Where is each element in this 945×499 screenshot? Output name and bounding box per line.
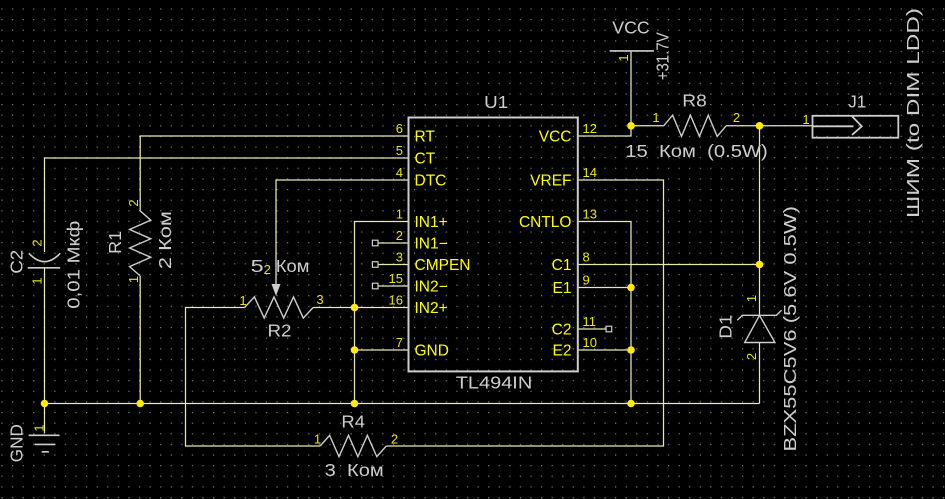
svg-text:5: 5	[396, 143, 403, 158]
svg-text:1: 1	[744, 295, 759, 302]
svg-text:1: 1	[239, 293, 246, 308]
svg-text:C2: C2	[7, 250, 27, 274]
svg-text:E1: E1	[553, 280, 572, 297]
svg-text:CNTLO: CNTLO	[519, 214, 572, 231]
svg-text:3 Ком: 3 Ком	[325, 460, 384, 480]
svg-text:1: 1	[802, 112, 809, 127]
svg-text:VCC: VCC	[612, 18, 650, 38]
svg-text:R1: R1	[105, 231, 125, 254]
svg-text:CT: CT	[415, 151, 436, 168]
svg-text:2 Ком: 2 Ком	[155, 211, 175, 269]
svg-text:2: 2	[744, 353, 759, 360]
svg-text:15: 15	[389, 271, 403, 286]
svg-text:E2: E2	[553, 343, 572, 360]
svg-text:R2: R2	[268, 321, 292, 341]
svg-text:2: 2	[391, 432, 398, 447]
svg-text:Ком: Ком	[276, 256, 310, 276]
svg-text:11: 11	[583, 314, 597, 329]
svg-text:U1: U1	[484, 92, 508, 112]
svg-text:0,01 Мкф: 0,01 Мкф	[64, 221, 84, 309]
svg-text:R8: R8	[682, 91, 707, 111]
svg-text:+31.7V: +31.7V	[652, 32, 672, 80]
svg-text:DTC: DTC	[415, 173, 447, 190]
svg-text:IN1−: IN1−	[415, 236, 448, 253]
svg-text:10: 10	[583, 335, 597, 350]
svg-text:R4: R4	[341, 412, 365, 432]
svg-text:4: 4	[396, 165, 403, 180]
svg-text:J1: J1	[848, 92, 866, 112]
svg-text:6: 6	[396, 121, 403, 136]
svg-text:13: 13	[583, 207, 597, 222]
svg-text:CMPEN: CMPEN	[415, 257, 471, 274]
svg-text:RT: RT	[415, 129, 436, 146]
svg-text:ШИМ (to DIM LDD): ШИМ (to DIM LDD)	[903, 8, 923, 218]
svg-text:1: 1	[32, 424, 47, 431]
svg-text:3: 3	[316, 292, 323, 307]
svg-text:D1: D1	[715, 315, 735, 339]
svg-text:BZX55C5V6 (5.6V 0.5W): BZX55C5V6 (5.6V 0.5W)	[780, 206, 800, 452]
svg-text:1: 1	[396, 207, 403, 222]
svg-text:15 Ком (0.5W): 15 Ком (0.5W)	[625, 141, 768, 161]
svg-text:1: 1	[652, 110, 659, 125]
svg-text:IN1+: IN1+	[415, 214, 448, 231]
svg-text:C1: C1	[552, 257, 572, 274]
svg-text:9: 9	[583, 273, 590, 288]
svg-text:2: 2	[396, 228, 403, 243]
svg-text:1: 1	[616, 54, 631, 61]
svg-text:2: 2	[126, 199, 141, 206]
svg-text:1: 1	[30, 277, 45, 284]
svg-text:12: 12	[583, 121, 597, 136]
svg-text:5: 5	[251, 256, 264, 276]
svg-text:GND: GND	[6, 424, 26, 462]
svg-text:VCC: VCC	[539, 129, 572, 146]
svg-text:3: 3	[396, 250, 403, 265]
svg-text:GND: GND	[415, 343, 449, 360]
svg-text:1: 1	[314, 432, 321, 447]
svg-text:TL494IN: TL494IN	[456, 373, 533, 393]
svg-text:16: 16	[389, 293, 403, 308]
svg-text:7: 7	[396, 335, 403, 350]
svg-text:1: 1	[126, 276, 141, 283]
svg-text:2: 2	[733, 110, 740, 125]
svg-text:2: 2	[264, 262, 271, 277]
svg-text:IN2+: IN2+	[415, 300, 448, 317]
svg-text:2: 2	[30, 239, 45, 246]
svg-text:VREF: VREF	[530, 173, 571, 190]
svg-text:8: 8	[583, 250, 590, 265]
svg-text:14: 14	[583, 165, 597, 180]
svg-text:IN2−: IN2−	[415, 279, 448, 296]
svg-text:C2: C2	[552, 322, 572, 339]
